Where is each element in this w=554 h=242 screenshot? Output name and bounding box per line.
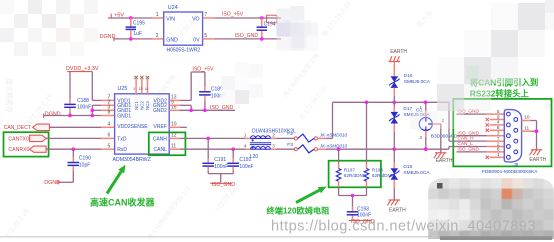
svg-text:100nF: 100nF [357, 212, 371, 218]
wire F2 up to CANH rail [318, 137, 326, 139]
svg-text:蛋文档密存: 蛋文档密存 [5, 78, 14, 113]
capacitor C195 [130, 18, 132, 26]
svg-text:5: 5 [204, 33, 207, 39]
green box CAN TX/RX [4, 132, 49, 156]
svg-text:0V: 0V [193, 38, 200, 44]
junction +5V / C195 [129, 16, 133, 20]
EARTH below D18 [389, 199, 400, 201]
svg-text:CANRX0: CANRX0 [8, 147, 29, 153]
junction R107 top / CANL [337, 147, 341, 151]
junction C190 tap [72, 147, 76, 151]
pin VREF stub [169, 126, 180, 128]
bottom frame line [0, 236, 435, 238]
junction C193 tap [351, 194, 355, 198]
svg-text:RxD: RxD [117, 147, 127, 153]
svg-text:3: 3 [497, 131, 500, 137]
wire D18 to EARTH [393, 180, 395, 188]
svg-text:9: 9 [497, 114, 500, 120]
svg-text:SMBJ5.0CA: SMBJ5.0CA [403, 170, 430, 176]
DB9 connector J8 [504, 110, 521, 162]
svg-text:12: 12 [171, 133, 177, 139]
junction TVS column / CANL [393, 147, 397, 151]
svg-text:11: 11 [171, 143, 176, 149]
svg-text:ISO_GND: ISO_GND [457, 147, 479, 153]
svg-text:6: 6 [108, 133, 111, 139]
wire CANH rail down to CAN_H pin [448, 102, 450, 141]
svg-text:VIN: VIN [166, 17, 175, 23]
svg-text:CAN_H: CAN_H [457, 136, 474, 142]
junction pin11 / earth drop [535, 129, 539, 133]
wire F3 CANL row to DB9 [318, 148, 326, 150]
junction G1 pin3 / CANL [424, 147, 428, 151]
svg-text:U24: U24 [168, 5, 178, 11]
green box CANH CANL [149, 132, 186, 155]
wire 0V to ISO_GND [203, 38, 215, 40]
svg-text:JK-nSMD010: JK-nSMD010 [319, 133, 348, 138]
svg-text:10pF: 10pF [79, 162, 90, 168]
wire rail to D17 [393, 102, 395, 106]
svg-text:100nF: 100nF [77, 105, 91, 111]
svg-text:C190: C190 [79, 156, 91, 162]
wire DB9 pin10 to earth drop [522, 120, 531, 122]
capacitor C191 [207, 138, 209, 158]
junction G1 pin1 / CANH rail [424, 101, 428, 105]
svg-text:2: 2 [156, 33, 159, 39]
wire D17 to CANL row [393, 124, 395, 133]
wire DB9 pin11 to earth drop [522, 130, 531, 132]
svg-text:https://blog.csdn.net/weixin_4: https://blog.csdn.net/weixin_40407893 [271, 219, 536, 235]
NC pins U25 [135, 79, 137, 94]
junction C189 / ISO_GND rail [203, 109, 207, 113]
svg-text:VREF: VREF [154, 124, 167, 130]
green box DB9 [453, 99, 551, 166]
svg-text:FDB0901-M0DB300K6KA: FDB0901-M0DB300K6KA [482, 169, 538, 175]
svg-text:ISO_GND: ISO_GND [457, 130, 479, 136]
svg-text:JK-nSMD010: JK-nSMD010 [319, 144, 348, 149]
svg-text:1: 1 [244, 133, 247, 138]
svg-text:4: 4 [244, 143, 247, 148]
junction GND1 drop / DGND [91, 114, 95, 118]
wire VDD2 to ISO_+5V leg [169, 99, 180, 101]
svg-text:ADM3054BRWZ: ADM3054BRWZ [113, 157, 151, 163]
svg-text:5: 5 [497, 109, 500, 115]
junction R108 top [365, 101, 369, 105]
svg-text:CANL: CANL [154, 147, 168, 153]
wire CANTX0 to TxD [46, 137, 101, 139]
junction C192 tap [231, 147, 235, 151]
svg-text:CANTX0: CANTX0 [8, 136, 29, 142]
capacitor C189 [204, 72, 206, 87]
svg-text:1: 1 [156, 12, 159, 18]
svg-text:7: 7 [497, 136, 500, 142]
junction C194 bottom [260, 37, 264, 41]
svg-text:DGND: DGND [100, 34, 116, 40]
tvs diode D16 [391, 76, 399, 82]
svg-text:C188: C188 [77, 98, 89, 104]
watermark band [28, 0, 42, 14]
wire CANL to D18 [393, 149, 395, 162]
svg-text:1uF: 1uF [133, 31, 142, 37]
svg-text:NC1: NC1 [134, 101, 139, 110]
svg-text:62R/dDNP: 62R/dDNP [344, 173, 366, 178]
wire GND2 pin16 / ISO_GND rail [169, 109, 180, 111]
junction TVS column / CANH rail [393, 101, 397, 105]
svg-text:R107: R107 [344, 168, 355, 173]
svg-text:R108: R108 [372, 168, 383, 173]
wire DVDD right leg to VDD1 [91, 72, 93, 101]
svg-text:4: 4 [108, 121, 111, 127]
wire GND1 pin2 to drop [92, 104, 101, 106]
capacitor C190 [72, 149, 74, 157]
svg-text:GND2: GND2 [153, 108, 167, 114]
svg-text:5: 5 [108, 143, 111, 149]
svg-text:EARTH: EARTH [529, 157, 546, 163]
svg-text:SMBJ5.0CA: SMBJ5.0CA [404, 79, 431, 85]
wire GND1 pin3 to drop [92, 109, 101, 111]
junction C191 tap [206, 137, 210, 141]
capacitor C192 [232, 149, 234, 158]
wire EARTH to D16 [393, 62, 395, 77]
svg-text:8: 8 [108, 110, 111, 116]
mosaic censored blob [428, 178, 554, 241]
wire C191 C192 common to ISO_GND [208, 173, 233, 175]
svg-text:8: 8 [497, 125, 500, 131]
wire G1 pin1 to CANH rail [425, 110, 427, 118]
wire CANL row [169, 148, 180, 150]
svg-text:CAN_DECT: CAN_DECT [4, 125, 31, 131]
capacitor C194 [261, 18, 263, 27]
svg-text:10: 10 [171, 121, 177, 127]
svg-text:C191: C191 [214, 157, 226, 163]
dc-dc converter U24 [164, 12, 203, 45]
svg-text:J8: J8 [514, 162, 519, 167]
svg-text:10: 10 [524, 115, 530, 121]
svg-text:1: 1 [133, 87, 135, 91]
wire +5V to U24 VIN [108, 17, 152, 19]
wire CAN_DECT to VDD2SENSE [49, 126, 101, 128]
bottom winding on CANL row [246, 148, 251, 150]
tvs diode D17 [391, 112, 399, 118]
wire CANL jog to CAN_L pin [448, 147, 450, 150]
svg-text:3: 3 [272, 143, 275, 148]
green box termination [329, 161, 381, 188]
junction GND1 pin3 [91, 109, 95, 113]
svg-text:EARTH: EARTH [436, 158, 453, 164]
power port DGND bottom [58, 181, 73, 183]
svg-text:U25: U25 [118, 86, 128, 92]
wire G1 pin2 to EARTH [432, 123, 441, 125]
svg-text:15: 15 [139, 87, 143, 91]
CAN transceiver U25 [115, 94, 170, 154]
junction C194 top [260, 16, 264, 20]
wire ISO_GND pin6 [457, 151, 487, 153]
svg-text:CAN_L: CAN_L [457, 141, 473, 147]
svg-text:GND1: GND1 [117, 113, 131, 119]
svg-text:EARTH: EARTH [390, 49, 407, 55]
svg-text:ISO_GND: ISO_GND [210, 105, 234, 111]
capacitor C188 [64, 103, 76, 105]
junction C188 / DGND [68, 114, 72, 118]
svg-text:VDD2SENSE: VDD2SENSE [117, 124, 148, 130]
no-connect pins DB9 [490, 119, 505, 121]
resistor R107 [338, 149, 340, 163]
wire D16 to rail [393, 88, 395, 96]
wire DGND to U24 GND [114, 38, 152, 40]
wire DGND row to GND1 pin8 [44, 115, 101, 117]
junction GND2 drop [189, 109, 193, 113]
svg-text:DGND: DGND [45, 111, 61, 117]
power port ISO_+5V [191, 71, 205, 73]
capacitor C193 [352, 196, 354, 207]
wire CANH row [169, 137, 180, 139]
EARTH at DB9 [531, 149, 542, 151]
wire CANRX0 to RxD [46, 148, 101, 150]
svg-text:F3: F3 [287, 142, 293, 148]
choke core [250, 142, 271, 144]
svg-text:CANH: CANH [153, 136, 168, 142]
svg-text:L20: L20 [250, 154, 259, 160]
svg-text:2: 2 [272, 133, 275, 138]
svg-text:ISO_GND: ISO_GND [235, 33, 259, 39]
wire earth drop [536, 121, 538, 150]
svg-text:ISO_+5V: ISO_+5V [192, 66, 214, 72]
wire VO to ISO_+5V [203, 17, 215, 19]
EARTH near G1 [435, 152, 446, 154]
svg-text:D18: D18 [403, 164, 412, 170]
svg-text:11: 11 [524, 125, 529, 131]
svg-text:7: 7 [204, 12, 207, 18]
svg-text:终端120欧姆电阻: 终端120欧姆电阻 [267, 206, 331, 216]
wire ISO_GND pin3 [457, 135, 487, 137]
svg-text:ISO_+5V: ISO_+5V [222, 12, 244, 18]
power port ISO_GND below C193 [349, 220, 372, 222]
CANH rail top [333, 101, 450, 103]
svg-text:TxD: TxD [117, 136, 127, 142]
wire ISO_GND pin5 [457, 113, 487, 115]
svg-text:100nF: 100nF [214, 164, 228, 170]
power port ISO_GND below C191 [210, 182, 231, 184]
wire termination mid rail [339, 195, 367, 197]
svg-text:4: 4 [497, 120, 500, 126]
svg-text:14: 14 [145, 87, 149, 91]
wire L20 to F2 [276, 137, 296, 139]
wire GND2 pin9 [169, 104, 180, 106]
wire L20 to F3 [276, 148, 296, 150]
junction DGND / C195 [129, 37, 133, 41]
svg-text:NC2: NC2 [140, 101, 145, 110]
svg-text:H0505S-1WR2: H0505S-1WR2 [166, 48, 200, 54]
svg-text:C195: C195 [133, 20, 145, 26]
tvs diode D18 [391, 168, 399, 174]
svg-text:100nF: 100nF [239, 164, 253, 170]
svg-text:EARTH: EARTH [389, 208, 406, 214]
svg-text:D16: D16 [404, 73, 413, 79]
wire DVDD left leg to C188 [69, 72, 71, 99]
svg-text:F2: F2 [287, 131, 293, 137]
resistor R108 [366, 102, 368, 163]
wire G1 pin3 to CANL row [425, 131, 427, 138]
